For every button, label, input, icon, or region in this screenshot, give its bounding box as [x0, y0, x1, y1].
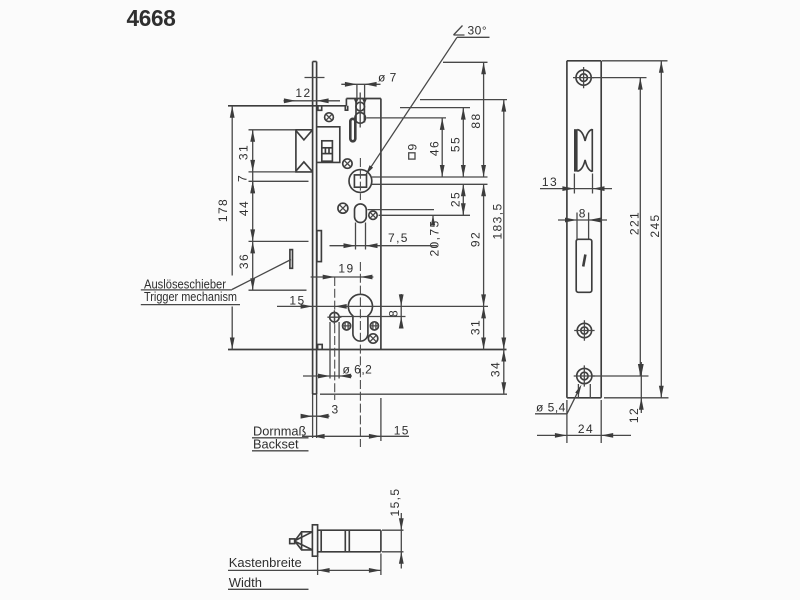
extension line plate top to 245: [602, 60, 668, 62]
pin lower circle: [355, 113, 366, 124]
svg-text:24: 24: [578, 422, 594, 436]
svg-text:34: 34: [489, 361, 503, 377]
backset dimension line: [302, 435, 409, 437]
latch tail inner rectangle: [322, 141, 333, 161]
svg-text:221: 221: [628, 211, 642, 235]
svg-text:88: 88: [469, 112, 483, 128]
dimension 15.5 line: [400, 513, 402, 569]
dimension 13 line: [540, 188, 612, 190]
screw circle right of capsule: [369, 211, 377, 219]
bottom view box bottom edge: [318, 551, 381, 553]
dimension 44 line: [252, 181, 254, 241]
trigger leader line: [232, 260, 291, 290]
roller latch left thick edge: [574, 129, 578, 171]
dimension 7 line: [252, 172, 254, 193]
pin upper circle: [356, 102, 365, 111]
dimension oe7 line: [341, 83, 380, 85]
svg-text:19: 19: [338, 262, 354, 276]
second vertical centerline at oe6.2 hole: [334, 277, 336, 400]
30 degree leader horizontal: [457, 36, 490, 38]
oe6.2 hole crosshair: [327, 310, 341, 324]
dimension 7.5 extension lines: [355, 223, 357, 250]
svg-text:ø 6,2: ø 6,2: [343, 363, 373, 377]
svg-text:44: 44: [237, 200, 251, 216]
pin retainer dark triangle right: [362, 99, 366, 104]
pin retainer dark triangle left: [354, 99, 358, 104]
faceplate top cap: [313, 61, 317, 63]
dimension 8 plate line: [558, 219, 607, 221]
faceplate plan top edge: [567, 60, 601, 62]
threaded hole left: [343, 322, 351, 330]
screw circle lower-left: [338, 203, 348, 213]
oe5.4 underline and leader: [535, 413, 567, 415]
dimension 12 line: [284, 100, 341, 102]
oval capsule hole: [355, 204, 367, 223]
latch bolt head outline: [296, 130, 313, 172]
extension line plate bottom to 245/12: [604, 397, 669, 399]
roller latch right edge: [591, 129, 593, 172]
top screw hole: [576, 70, 591, 85]
cylinder vertical centerline: [359, 262, 361, 447]
trigger slider body behind faceplate: [317, 231, 322, 262]
svg-text:12: 12: [295, 86, 311, 100]
threaded hole right: [370, 322, 378, 330]
case right edge: [380, 99, 382, 350]
dimension 24 extension lines: [566, 400, 568, 443]
roller latch bottom curves: [577, 160, 592, 172]
screw circle bottom-right: [368, 334, 377, 343]
dimension 7.5 line: [330, 245, 438, 247]
bottom view faceplate section: [312, 525, 317, 556]
latch tail inner line 2: [322, 153, 333, 155]
bottom screw hole: [577, 368, 592, 383]
faceplate plan right edge: [600, 61, 602, 398]
svg-text:25: 25: [449, 191, 463, 207]
dimension 55 line: [462, 108, 464, 177]
pin slot right wall: [363, 99, 365, 123]
extension line screw right (25 / 20.75): [379, 214, 471, 216]
svg-text:8: 8: [579, 207, 587, 221]
dimension 24 line: [537, 434, 631, 436]
svg-text:92: 92: [469, 231, 483, 247]
bottom view box top edge: [318, 529, 381, 531]
extension line faceplate top right (88): [443, 61, 488, 63]
case top step up: [345, 99, 347, 106]
dimension 3 extension lines: [312, 394, 314, 438]
oe6.2 hole circle: [330, 313, 339, 322]
faceplate plan bottom edge: [567, 397, 601, 399]
dimension oe7 extension lines: [356, 84, 358, 98]
dimension oe7 arrows: [345, 82, 357, 87]
dimension 221 line: [639, 78, 641, 376]
dimension 34 line: [503, 350, 505, 395]
svg-text:31: 31: [237, 144, 251, 160]
svg-text:245: 245: [648, 213, 662, 237]
svg-text:Width: Width: [229, 575, 262, 590]
svg-text:ø 5,4: ø 5,4: [536, 401, 566, 415]
svg-text:15: 15: [289, 294, 305, 308]
dimension 36 line: [252, 241, 254, 290]
dimension 12 plate line: [640, 362, 642, 413]
dimension 178 line: [231, 106, 233, 276]
roller latch top curves: [577, 129, 592, 141]
svg-text:8: 8: [387, 309, 401, 317]
dimension 13 extension lines: [573, 174, 575, 194]
small bump on case bottom edge: [318, 344, 323, 349]
svg-text:3: 3: [331, 403, 339, 417]
svg-text:15: 15: [394, 424, 410, 438]
latch bevel chevron bottom: [296, 162, 312, 171]
euro cylinder hole: [348, 294, 372, 341]
svg-text:4668: 4668: [127, 5, 176, 31]
dimension 19 line: [311, 276, 374, 278]
bottom view inner line 2: [344, 530, 346, 552]
dimension 20.75 line: [432, 215, 434, 221]
extension line case top right (183.5): [420, 99, 507, 101]
faceplate (Stulp) front line: [312, 62, 314, 395]
follower vertical centerline: [359, 158, 361, 200]
faceplate back line: [316, 62, 318, 395]
slot inner latch bar: [583, 255, 585, 267]
small stub below top step: [345, 106, 347, 110]
screw circle upper-left: [325, 113, 334, 122]
square 9 symbol and text: [409, 153, 415, 159]
box width extension left: [317, 557, 319, 576]
pin slot left wall: [355, 99, 357, 123]
latch tail block: [317, 127, 340, 163]
svg-text:46: 46: [428, 140, 442, 156]
case top edge right raised section: [346, 98, 381, 100]
narrow slot (dark capsule): [350, 119, 355, 142]
dimension 15.5 extension lines: [382, 529, 404, 531]
svg-text:36: 36: [237, 253, 251, 269]
case right edge extension down: [380, 398, 382, 441]
case bottom edge / extension line: [228, 349, 507, 351]
cylinder slot in faceplate: [576, 239, 592, 292]
latch bevel chevron top: [296, 131, 312, 140]
screw circle mid-left: [343, 159, 352, 168]
30 degree leader arrowhead: [366, 165, 373, 175]
bottom view latch wedge: [295, 532, 313, 550]
dimension 31 lower line: [483, 306, 485, 349]
extension line y181: [249, 180, 309, 182]
extension line bottom screw to 221/12: [592, 375, 649, 377]
svg-text:7: 7: [236, 174, 250, 182]
30 degree leader diagonal: [366, 37, 457, 175]
faceplate plan left edge: [566, 61, 568, 398]
middle screw hole: [577, 323, 591, 337]
svg-text:Trigger mechanism: Trigger mechanism: [144, 290, 237, 304]
svg-text:31: 31: [469, 319, 483, 335]
svg-text:20,75: 20,75: [428, 219, 442, 256]
follower circle: [349, 170, 372, 193]
extension line oe6.2 level (8): [340, 316, 406, 318]
bottom view latch nub: [290, 539, 295, 544]
svg-text:7,5: 7,5: [388, 231, 409, 245]
extension line follower upper: [372, 176, 488, 178]
dimension 88 line: [483, 62, 485, 177]
svg-text:12: 12: [627, 407, 641, 423]
bottom view inner line 1: [320, 530, 322, 552]
trigger slider pin in front of faceplate: [290, 250, 293, 269]
dimension 92 line: [483, 184, 485, 306]
extension line pin upper circle (55): [400, 107, 470, 109]
box width dimension line: [228, 569, 381, 571]
extension line pin lower circle (46): [367, 117, 447, 119]
box width extension right: [380, 554, 382, 576]
svg-text:Backset: Backset: [253, 437, 299, 452]
latch tail small core: [324, 148, 326, 154]
pin centerline: [359, 93, 361, 128]
30 degree label: [454, 26, 465, 36]
faceplate bottom cap: [313, 393, 317, 395]
dimension 31 line: [252, 130, 254, 172]
svg-text:30°: 30°: [468, 24, 488, 38]
bottom view inner line 3: [348, 530, 350, 552]
small notch below top edge near faceplate: [318, 106, 322, 111]
svg-text:ø 7: ø 7: [378, 71, 397, 85]
dimension 25 line: [462, 184, 464, 215]
latch tail inner line 1: [322, 147, 333, 149]
svg-text:9: 9: [406, 142, 420, 150]
bottom screw extension lines down: [577, 384, 579, 398]
dimension 183.5 line: [503, 100, 505, 350]
svg-text:13: 13: [542, 175, 558, 189]
faceplate tick mark upper: [305, 77, 325, 79]
dimension 15 upper arrows: [301, 304, 313, 309]
svg-text:Kastenbreite: Kastenbreite: [229, 555, 302, 570]
extension line top screw to 221: [592, 77, 647, 79]
dimension 46 line: [441, 118, 443, 177]
case top edge left section / 178 extension line: [228, 105, 346, 107]
svg-text:15,5: 15,5: [388, 488, 402, 517]
svg-text:183,5: 183,5: [491, 202, 505, 239]
dimension 8 line: [400, 294, 402, 329]
extension line capsule top: [368, 209, 435, 211]
extension line y241: [249, 240, 309, 242]
latch top extension line: [249, 129, 296, 131]
dimension 8 plate extension lines: [576, 213, 578, 240]
extension line y290: [249, 289, 307, 291]
extension line follower lower: [372, 183, 488, 185]
dimension 12 arrows: [284, 98, 296, 103]
dimension oe6.2 line: [303, 375, 352, 377]
latch bottom extension line: [249, 171, 296, 173]
svg-text:55: 55: [449, 136, 463, 152]
extension line cylinder centerline: [277, 305, 488, 307]
bottom view box right edge: [380, 530, 382, 552]
dimension oe6.2 extension lines: [329, 322, 331, 379]
follower square 9mm: [354, 175, 366, 187]
svg-text:178: 178: [216, 198, 230, 222]
extension line faceplate bottom (34): [320, 393, 507, 395]
dimension 245 line: [660, 61, 662, 398]
dimension 3 line: [302, 415, 330, 417]
